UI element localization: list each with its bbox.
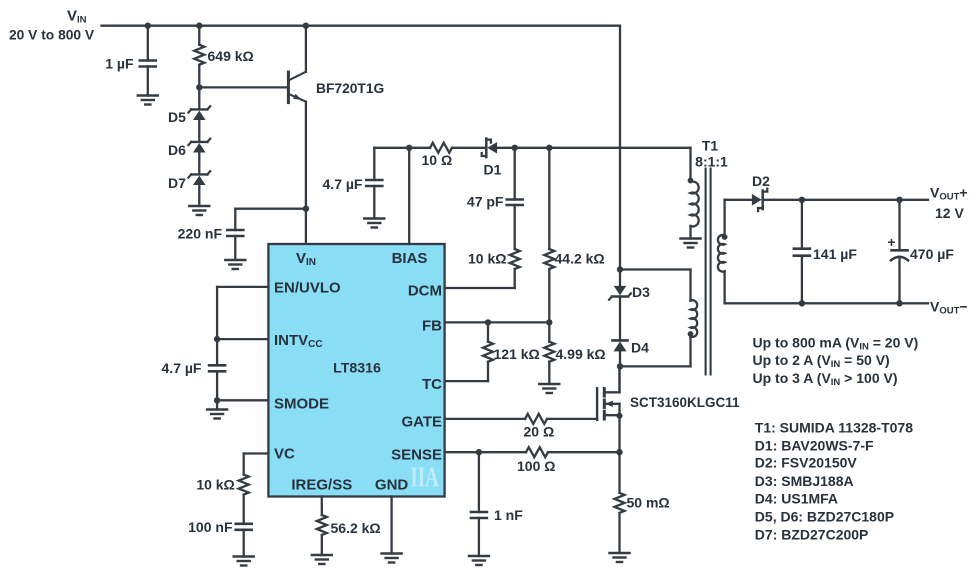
svg-text:TC: TC [422,376,442,393]
wire INTVCC [217,338,268,340]
junction BIAS node [406,145,412,151]
inductor T1 secondary winding [718,235,725,272]
text output current notes [753,335,919,388]
wire IREG/SS [321,497,323,516]
capacitor C2 220nF [178,209,244,260]
svg-text:4.99 kΩ: 4.99 kΩ [556,346,606,362]
wire secondary bottom [725,271,928,303]
resistor R11 50mohm [615,452,670,553]
svg-text:1 µF: 1 µF [105,56,134,72]
pin label SENSE [391,446,442,463]
wire drain [618,366,620,392]
svg-text:4.7 µF: 4.7 µF [162,360,202,376]
ground U1 GND [382,554,402,563]
svg-text:Up to 2 A (VIN = 50 V): Up to 2 A (VIN = 50 V) [753,352,890,370]
wire SMODE [217,399,268,401]
pin label TC [422,376,442,393]
svg-text:VIN: VIN [67,8,87,26]
wire source down [618,416,620,453]
junction drain node [617,363,623,369]
svg-text:D1: D1 [484,162,502,178]
resistor R4 10ohm [422,143,453,168]
junction rail-R649 [196,23,202,29]
zener D5 [168,87,210,125]
junction FB-121k [485,319,491,325]
wire R4 to D1 [452,147,486,149]
junction rail-C1 [145,23,151,29]
junction out bot C8 [799,300,805,306]
pin label FB [422,317,442,334]
svg-text:D7: BZD27C200P: D7: BZD27C200P [755,526,869,542]
inductor T1 primary winding [691,300,698,337]
junction INTVCC node [214,336,220,342]
wire D1 to bias winding [498,148,691,182]
svg-text:IIA: IIA [410,461,439,493]
wire primary bottom [620,337,691,367]
junction out bot C9 [896,300,902,306]
capacitor C3 4.7uF intvcc [162,339,226,400]
transformer core [706,169,711,375]
svg-text:20 Ω: 20 Ω [524,424,555,440]
svg-text:T1: SUMIDA 11328-T078: T1: SUMIDA 11328-T078 [755,419,913,435]
ground C1 [138,96,158,105]
junction SMODE node [214,397,220,403]
capacitor C8 141uF [794,200,857,303]
junction D1-C6 node [512,145,518,151]
svg-text:4.7 µF: 4.7 µF [323,176,363,192]
svg-text:121 kΩ: 121 kΩ [494,346,540,362]
wire Q1 emitter to VIN pin [305,209,307,244]
transistor Q1 BF720T1G [288,26,384,209]
zener D3 SMBJ188A [609,270,650,301]
svg-text:SCT3160KLGC11: SCT3160KLGC11 [630,395,740,410]
svg-text:1 nF: 1 nF [494,507,523,523]
junction source sense node [616,449,622,455]
svg-text:141 µF: 141 µF [813,246,857,262]
svg-text:LT8316: LT8316 [333,361,381,377]
svg-text:10 kΩ: 10 kΩ [196,477,234,493]
svg-text:47 pF: 47 pF [467,194,504,210]
svg-text:220 nF: 220 nF [178,226,223,242]
svg-text:BF720T1G: BF720T1G [316,81,384,96]
svg-text:SMODE: SMODE [274,396,329,413]
pin label GND [375,477,409,494]
ground C5 [364,219,384,228]
junction rail-Q1 collector [303,23,309,29]
ground C4 [234,557,254,566]
svg-text:44.2 kΩ: 44.2 kΩ [555,251,605,267]
svg-text:Up to 3 A (VIN > 100 V): Up to 3 A (VIN > 100 V) [753,370,898,388]
label T1 [695,138,728,170]
capacitor C5 4.7uF bias [323,148,383,219]
svg-text:T1: T1 [702,138,719,154]
capacitor C4 100nF [188,519,252,557]
resistor R3 56.2k [317,515,381,555]
junction out top C9 [896,197,902,203]
svg-text:D4: US1MFA: D4: US1MFA [755,491,838,507]
svg-text:20 V to 800 V: 20 V to 800 V [9,28,95,43]
transistor Q2 SCT3160KLGC11 [597,366,740,420]
resistor R8 4.99k [544,322,605,384]
wire TC [445,380,488,382]
svg-text:SENSE: SENSE [391,446,442,463]
svg-text:D5: D5 [168,109,186,125]
svg-text:BIAS: BIAS [392,250,428,267]
junction emitter-220nF node [303,206,309,212]
node secondary phase dot [722,234,728,240]
junction 44.2k node [546,145,552,151]
svg-text:D2: FSV20150V: D2: FSV20150V [755,455,858,471]
diode D4 US1MFA [613,297,650,367]
diode D2 FSV20150V [752,173,770,211]
svg-text:+: + [887,234,895,250]
junction base node [196,84,202,90]
ground C2 [225,260,245,269]
pin label SMODE [274,396,329,413]
wire D7 to ground [198,186,200,207]
svg-text:100 nF: 100 nF [188,519,233,535]
svg-text:470 µF: 470 µF [910,246,954,262]
capacitor C7 1nF [471,452,523,556]
svg-text:FB: FB [422,317,442,334]
text BOM list [755,419,913,542]
svg-text:100 Ω: 100 Ω [517,458,555,474]
inductor T1 bias winding [691,182,699,239]
svg-text:VOUT−: VOUT− [930,299,968,317]
resistor R2 10k VC [196,475,248,524]
U1 watermark [410,461,439,493]
wire 220nF node [235,208,306,210]
svg-text:649 kΩ: 649 kΩ [208,48,254,64]
diode D1 BAV20WS [482,139,502,178]
svg-text:VOUT+: VOUT+ [930,185,968,203]
junction source-body [617,413,623,419]
svg-text:D5, D6: BZD27C180P: D5, D6: BZD27C180P [755,509,894,525]
pin label INTVCC [274,332,323,350]
wire GND pin [390,497,392,554]
wire DCM [445,287,515,289]
wire output top rail [763,199,928,201]
ground bias winding [681,239,701,248]
svg-text:8:1:1: 8:1:1 [695,154,728,170]
pin label BIAS [392,250,428,267]
node bias winding phase dot [688,178,694,184]
svg-text:GATE: GATE [401,413,442,430]
wire base node to Q1 [199,86,288,88]
wire secondary top [725,200,751,236]
wire BIAS node [374,147,430,149]
resistor R5 10k [468,249,520,288]
ground SMODE [207,410,227,419]
ground R8 [539,384,559,393]
svg-text:DCM: DCM [408,282,442,299]
svg-text:56.2 kΩ: 56.2 kΩ [331,520,381,536]
svg-text:D7: D7 [168,175,186,191]
junction clamp top [617,266,623,272]
svg-text:10 Ω: 10 Ω [422,152,453,168]
capacitor C6 47pF [467,148,523,249]
svg-text:EN/UVLO: EN/UVLO [274,279,341,296]
junction out top C8 [799,197,805,203]
wire VIN top rail [102,26,621,270]
wire SENSE pin [445,451,526,453]
svg-text:10 kΩ: 10 kΩ [468,251,506,267]
pin label IREG/SS [291,477,352,494]
svg-text:D4: D4 [631,340,649,356]
capacitor C1 1uF [105,26,156,96]
svg-text:D3: D3 [632,284,650,300]
resistor R7 121k [483,322,540,381]
wire primary top [620,270,691,301]
resistor R6 44.2k [544,148,604,323]
junction FB-4.99k [546,319,552,325]
svg-text:Up to 800 mA (VIN = 20 V): Up to 800 mA (VIN = 20 V) [753,335,919,353]
capacitor C9 470uF polarized [887,200,954,303]
wire FB [445,321,550,323]
wire SMODE to ground [216,400,218,409]
svg-text:VC: VC [274,446,295,463]
wire VC [244,454,269,475]
pin label VIN [296,250,316,268]
junction SENSE-1nF [476,449,482,455]
wire GATE pin [445,418,525,420]
resistor R10 100ohm [517,447,620,474]
ground C7 [469,556,489,565]
ground D7 [189,206,209,215]
wire EN/UVLO [217,287,268,339]
pin label VC [274,446,295,463]
svg-text:12 V: 12 V [935,205,964,221]
resistor R9 20ohm [524,414,598,440]
ground IREG [312,555,332,564]
zener D7 [168,153,210,191]
svg-text:50 mΩ: 50 mΩ [627,495,670,511]
svg-text:D1: BAV20WS-7-F: D1: BAV20WS-7-F [755,437,874,453]
wire BIAS pin [408,148,410,244]
svg-text:D2: D2 [752,173,770,189]
op-amp U1 LT8316 body [268,244,444,497]
node primary phase dot [688,331,694,337]
svg-text:GND: GND [375,477,409,494]
pin label EN/UVLO [274,279,341,296]
pin label GATE [401,413,442,430]
node VOUT+ label [930,185,968,222]
pin label DCM [408,282,442,299]
zener D6 [168,121,210,159]
node VIN input label [9,8,95,43]
node VOUT- label [930,299,968,317]
ground R11 [610,553,630,562]
resistor R1 649k [194,26,253,88]
svg-text:D6: D6 [168,142,186,158]
svg-text:IREG/SS: IREG/SS [291,477,352,494]
svg-text:D3: SMBJ188A: D3: SMBJ188A [755,473,854,489]
